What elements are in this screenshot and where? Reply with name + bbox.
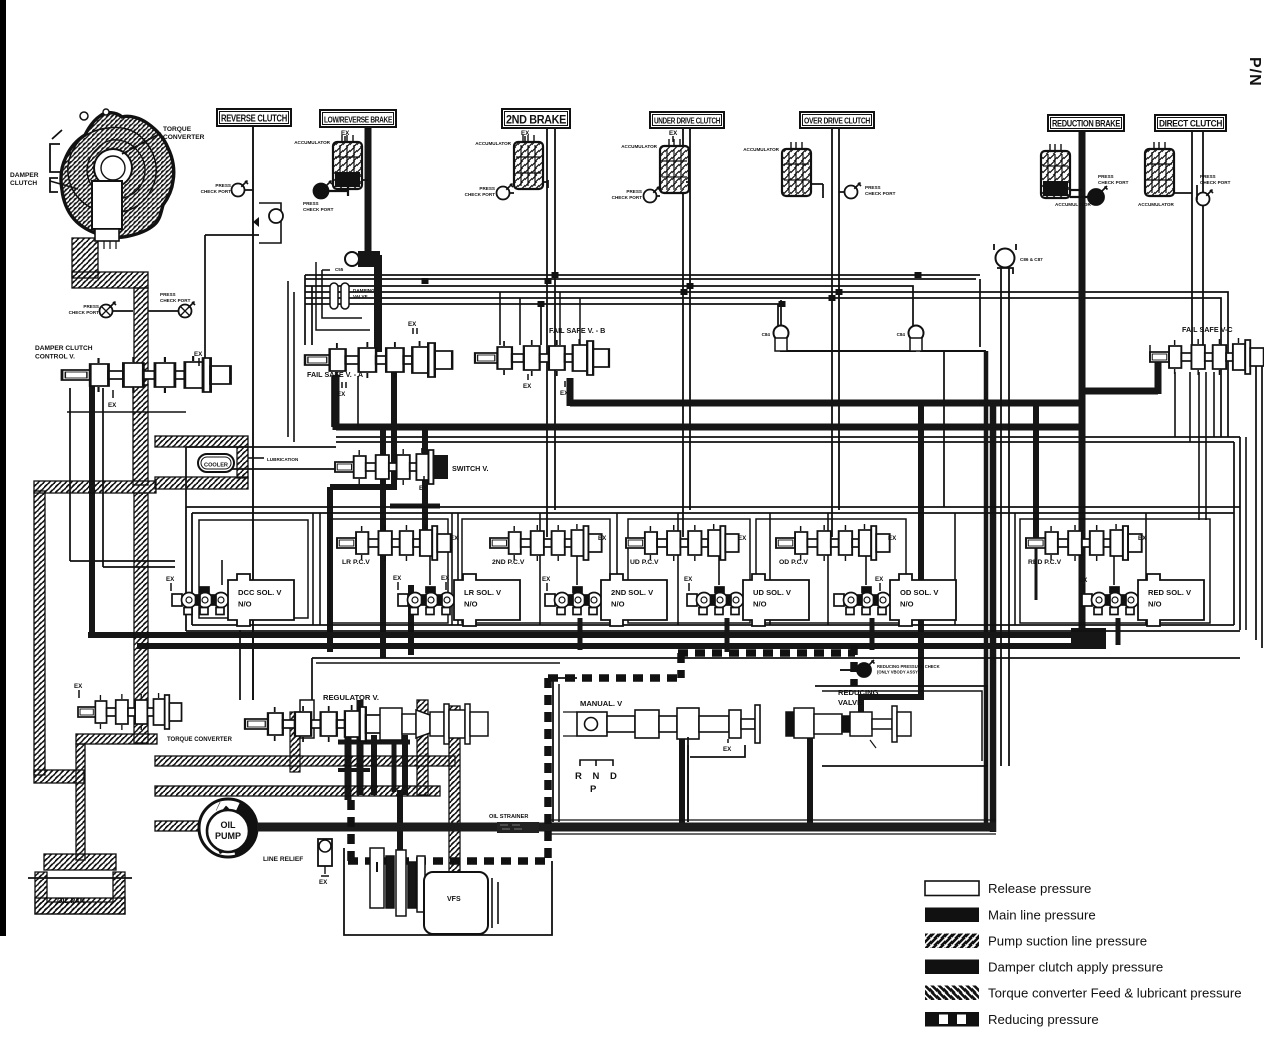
svg-text:EX: EX bbox=[669, 130, 678, 137]
wire: left links bbox=[186, 447, 336, 507]
regulator extension bbox=[380, 704, 488, 744]
svg-text:ACCUMULATOR: ACCUMULATOR bbox=[743, 147, 779, 152]
press check port: direct bbox=[1197, 190, 1214, 206]
accumulator: reduction bbox=[1041, 144, 1070, 198]
wire: thick drop to fail safe A bbox=[374, 255, 382, 352]
wire: reducing dashed x854 bbox=[850, 645, 858, 686]
svg-text:EX: EX bbox=[684, 576, 693, 583]
wire: upper bus line 1 bbox=[305, 275, 980, 279]
svg-text:Pump suction line pressure: Pump suction line pressure bbox=[988, 934, 1147, 949]
svg-text:C84: C84 bbox=[762, 332, 771, 337]
svg-text:ACCUMULATOR: ACCUMULATOR bbox=[294, 140, 330, 145]
wire: accumulator stubs bbox=[362, 180, 548, 188]
svg-text:OIL: OIL bbox=[221, 820, 237, 830]
wire: x985 drop bbox=[984, 351, 989, 826]
wire: over drive clutch drop pair bbox=[832, 128, 839, 537]
solenoid valve: RED solenoid bbox=[1082, 574, 1204, 626]
frame: VFS loop bbox=[344, 848, 552, 935]
svg-text:REVERSE CLUTCH: REVERSE CLUTCH bbox=[221, 113, 287, 125]
pipe: suction horizontal y786 bbox=[155, 786, 440, 796]
oil pump bbox=[199, 799, 257, 857]
label box: DIRECT CLUTCH bbox=[1155, 115, 1226, 131]
check ball: C86 & C87 bbox=[994, 244, 1016, 274]
svg-text:EX: EX bbox=[1079, 577, 1088, 584]
wire: lower thin loop bbox=[312, 658, 1240, 700]
line relief valve bbox=[318, 839, 332, 876]
wire: bus right end drop bbox=[979, 279, 981, 347]
torque converter body bbox=[50, 109, 174, 249]
svg-text:N/O: N/O bbox=[900, 600, 914, 609]
solenoid valve: DCC solenoid bbox=[172, 574, 294, 626]
svg-text:Damper clutch apply pressure: Damper clutch apply pressure bbox=[988, 960, 1163, 975]
legend item: Damper clutch apply pressure bbox=[925, 960, 979, 975]
wire: C84 collector line bbox=[781, 340, 985, 637]
svg-text:OVER DRIVE CLUTCH: OVER DRIVE CLUTCH bbox=[804, 117, 870, 126]
svg-text:EX: EX bbox=[598, 535, 607, 542]
VFS solenoid cluster bbox=[370, 848, 425, 916]
wire: oil pan rim line bbox=[28, 877, 132, 879]
wire: oil strainer main line bbox=[257, 823, 996, 832]
press check port: reverse bbox=[232, 181, 249, 197]
svg-text:EX: EX bbox=[888, 535, 897, 542]
wire: bus left drop to fail safe A bbox=[305, 275, 312, 345]
svg-text:Release pressure: Release pressure bbox=[988, 881, 1091, 896]
wire: VFS feed black bbox=[397, 790, 403, 870]
wire: reverse clutch drop line bbox=[252, 126, 254, 700]
pipe: horizontal duct y734 bbox=[76, 734, 157, 744]
valve spool: switch valve bbox=[335, 448, 447, 485]
svg-text:PUMP: PUMP bbox=[215, 831, 241, 841]
svg-text:EX: EX bbox=[523, 383, 532, 390]
valve spool: LR PCV bbox=[337, 524, 451, 561]
pipe: suction elbow bbox=[34, 770, 84, 783]
legend item: Reducing pressure bbox=[925, 1012, 979, 1027]
svg-text:LR P.C.V: LR P.C.V bbox=[342, 559, 370, 566]
wire: main line thick vertical x383 bbox=[380, 427, 386, 658]
svg-text:ACCUMULATOR: ACCUMULATOR bbox=[475, 141, 511, 146]
svg-text:EX: EX bbox=[542, 576, 551, 583]
accumulator: under drive bbox=[660, 139, 689, 193]
pipe: suction vertical to oil pan bbox=[76, 744, 85, 860]
gear selector R N D P bbox=[580, 760, 613, 766]
wire: main line thick vertical x425 bbox=[422, 427, 428, 545]
svg-text:ACCUMULATOR: ACCUMULATOR bbox=[621, 144, 657, 149]
wire: line to regulator left bbox=[240, 630, 253, 700]
svg-text:TORQUE CONVERTER: TORQUE CONVERTER bbox=[167, 737, 233, 743]
wire: sol chain drops (thick) bbox=[578, 618, 583, 650]
frame: manual valve box bbox=[553, 678, 577, 822]
svg-text:VFS: VFS bbox=[447, 896, 461, 903]
svg-text:OIL STRAINER: OIL STRAINER bbox=[489, 814, 528, 820]
press check port: dcc-1 bbox=[100, 302, 117, 318]
wire: bottom right corner thick bbox=[990, 405, 997, 832]
VFS body bbox=[424, 872, 498, 934]
svg-text:EX: EX bbox=[166, 576, 175, 583]
wire: DCC left thin verticals bbox=[70, 388, 103, 567]
svg-text:N/O: N/O bbox=[753, 600, 767, 609]
valve spool: regulator valve bbox=[245, 705, 382, 742]
label box: REVERSE CLUTCH bbox=[217, 109, 291, 126]
wire: main line thick vertical x411 bbox=[408, 585, 414, 655]
svg-text:EX: EX bbox=[408, 321, 417, 328]
reducing valve spool bbox=[786, 706, 911, 748]
svg-text:ACCUMULATOR: ACCUMULATOR bbox=[1138, 202, 1174, 207]
svg-text:EX: EX bbox=[419, 485, 428, 492]
svg-text:Torque converter Feed & lubric: Torque converter Feed & lubricant pressu… bbox=[988, 986, 1242, 1001]
label box: 2ND BRAKE bbox=[502, 109, 570, 128]
wire: main line to RED PCV (thick) bbox=[1033, 406, 1039, 545]
legend item: Pump suction line pressure bbox=[925, 934, 979, 949]
wire: direct clutch drop pair bbox=[1192, 131, 1203, 345]
wire: sol stubs bbox=[222, 556, 1114, 585]
wire: main line from low/reverse brake (thick) bbox=[365, 127, 372, 258]
wire: DCC sol feed lines bbox=[70, 561, 175, 567]
svg-text:DIRECT CLUTCH: DIRECT CLUTCH bbox=[1159, 119, 1222, 130]
wire: upper bus line 5 bbox=[305, 304, 778, 326]
pipe: oil pan basin bbox=[35, 872, 125, 914]
page scan edge bar bbox=[0, 0, 6, 936]
svg-text:R N D: R N D bbox=[575, 771, 621, 782]
valve spool: fail safe V-B bbox=[475, 339, 609, 376]
svg-text:LR SOL. V: LR SOL. V bbox=[464, 588, 502, 597]
svg-text:OD SOL. V: OD SOL. V bbox=[900, 588, 939, 597]
svg-text:RED SOL. V: RED SOL. V bbox=[1148, 588, 1192, 597]
cooler bbox=[198, 454, 234, 472]
pipe: oil pan top plate bbox=[44, 854, 116, 870]
valve spool: fail safe V-A bbox=[305, 341, 452, 378]
accumulator: direct bbox=[1145, 142, 1174, 196]
svg-text:EX: EX bbox=[875, 576, 884, 583]
svg-text:DAMPERCLUTCH: DAMPERCLUTCH bbox=[10, 172, 39, 187]
svg-text:MANUAL. V: MANUAL. V bbox=[580, 699, 623, 708]
manual valve spool bbox=[563, 705, 760, 743]
pipe: torque converter outlet duct bbox=[72, 238, 98, 278]
press check port: over drive bbox=[845, 183, 862, 199]
wire: reducing dashed drop x703 bbox=[677, 653, 685, 678]
press check port: reducing pressure check bbox=[857, 660, 875, 677]
pipe: regulator hatched columns bbox=[417, 700, 428, 795]
pipe: cooler loop right bbox=[237, 447, 248, 478]
label box: REDUCTION BRAKE bbox=[1048, 115, 1124, 131]
svg-text:REDUCING: REDUCING bbox=[838, 688, 879, 697]
check valve assembly at reverse line bbox=[253, 203, 283, 243]
wire: manual valve drop left (thick) bbox=[679, 735, 685, 826]
svg-text:EX: EX bbox=[560, 390, 569, 397]
svg-text:FAIL SAFE V-C: FAIL SAFE V-C bbox=[1182, 325, 1233, 334]
svg-text:FAIL SAFE V. - B: FAIL SAFE V. - B bbox=[549, 326, 605, 335]
legend item: Main line pressure bbox=[925, 908, 979, 923]
svg-text:OD P.C.V: OD P.C.V bbox=[779, 559, 808, 566]
wire: under drive clutch drop pair bbox=[683, 128, 690, 537]
press check port: reduction bbox=[1088, 186, 1108, 205]
pipe: left suction vertical bbox=[34, 491, 45, 775]
wire: regulator black columns bbox=[345, 735, 352, 800]
accumulator: low/reverse bbox=[333, 135, 362, 189]
pipe: suction band to left edge bbox=[34, 481, 156, 493]
wire: reducing dashed x351 bbox=[347, 800, 355, 861]
svg-text:SWITCH V.: SWITCH V. bbox=[452, 464, 488, 473]
accumulator: over drive bbox=[782, 142, 811, 196]
wire: upper bus line 2 bbox=[305, 286, 913, 326]
svg-text:C84: C84 bbox=[897, 332, 906, 337]
wire: upper bus line 3 bbox=[305, 292, 1228, 375]
wire: main line elbow to x330 bbox=[330, 487, 394, 652]
svg-text:Main line pressure: Main line pressure bbox=[988, 908, 1096, 923]
valve spool: RED PCV bbox=[1026, 524, 1142, 561]
frame: solenoid row outer bbox=[186, 507, 1240, 513]
svg-text:UD SOL. V: UD SOL. V bbox=[753, 588, 792, 597]
svg-text:2ND P.C.V: 2ND P.C.V bbox=[492, 559, 525, 566]
pipe: suction horizontal to pump bbox=[155, 821, 203, 831]
wire: bottom thick pair bbox=[88, 632, 1090, 638]
label: lubrication bbox=[248, 457, 264, 459]
frame: inner cell DCC bbox=[199, 520, 308, 618]
svg-text:EX: EX bbox=[723, 746, 732, 753]
wire: reducing dashed y678 bbox=[548, 674, 681, 682]
junction block: thick pair right end bbox=[1071, 628, 1106, 648]
wire: reducing dashed x548 bbox=[544, 678, 552, 861]
solenoid valve: LR solenoid bbox=[398, 574, 520, 626]
check ball: C84 right bbox=[909, 326, 924, 352]
wire: damping valve loop bbox=[322, 270, 362, 318]
svg-text:DCC SOL. V: DCC SOL. V bbox=[238, 588, 282, 597]
wire: fail safe C pin drops bbox=[1175, 372, 1206, 520]
press check port: 2nd brake bbox=[497, 184, 514, 200]
valve spool: DCC control valve bbox=[62, 356, 230, 393]
wire: thick vertical x921 to reducing valve bbox=[861, 403, 924, 714]
frame: partitions bbox=[312, 513, 314, 625]
wire: right frame verticals bbox=[1234, 437, 1240, 630]
wire: far right frame pair bbox=[1256, 352, 1262, 648]
svg-text:FAIL SAFE V. - A: FAIL SAFE V. - A bbox=[307, 370, 363, 379]
solenoid valve: OD solenoid bbox=[834, 574, 956, 626]
svg-text:EX: EX bbox=[441, 575, 450, 582]
wire: mid thin pair bbox=[336, 437, 1240, 442]
svg-text:Reducing pressure: Reducing pressure bbox=[988, 1012, 1099, 1027]
svg-text:EX: EX bbox=[393, 575, 402, 582]
accumulator: 2nd brake bbox=[514, 135, 543, 189]
junction ticks on bus lines bbox=[545, 278, 552, 284]
svg-text:REGULATOR V.: REGULATOR V. bbox=[323, 693, 379, 702]
wire: 2nd brake drop pair bbox=[547, 128, 555, 537]
press check port: under drive bbox=[644, 187, 661, 203]
frame: reducing valve box bbox=[815, 686, 987, 766]
valve spool: UD PCV bbox=[626, 524, 739, 561]
svg-text:OIL PAN: OIL PAN bbox=[57, 898, 85, 905]
svg-text:P: P bbox=[590, 784, 597, 795]
valve spool: OD PCV bbox=[776, 524, 890, 561]
svg-text:LOW/REVERSE BRAKE: LOW/REVERSE BRAKE bbox=[324, 116, 393, 125]
press check port: low/reverse bbox=[314, 181, 333, 199]
svg-text:N/O: N/O bbox=[464, 600, 478, 609]
svg-text:EX: EX bbox=[450, 535, 459, 542]
junction ball: C55 junction bbox=[345, 252, 359, 266]
svg-text:LINE RELIEF: LINE RELIEF bbox=[263, 856, 303, 863]
svg-text:P/N: P/N bbox=[1246, 57, 1263, 87]
label box: LOW&#47;REVERSE BRAKE bbox=[320, 110, 396, 127]
wire: C86 drop pair bbox=[1001, 268, 1009, 766]
damping valve bbox=[330, 283, 349, 309]
pipe: duct below DCC valve bbox=[133, 385, 148, 485]
wire: reducing dashed y653 bbox=[678, 649, 855, 657]
valve spool: fail safe V-C bbox=[1150, 338, 1264, 375]
svg-text:N/O: N/O bbox=[611, 600, 625, 609]
check ball: C84 left bbox=[774, 326, 789, 352]
svg-text:UNDER DRIVE CLUTCH: UNDER DRIVE CLUTCH bbox=[654, 117, 720, 126]
valve spool: 2ND PCV bbox=[490, 524, 602, 561]
svg-text:EX: EX bbox=[319, 879, 328, 886]
svg-text:EX: EX bbox=[337, 391, 346, 398]
svg-text:EX: EX bbox=[74, 683, 83, 690]
svg-text:EX: EX bbox=[194, 351, 203, 358]
svg-text:ACCUMULATOR: ACCUMULATOR bbox=[1055, 202, 1091, 207]
svg-text:UD P.C.V: UD P.C.V bbox=[630, 559, 659, 566]
legend item: Torque converter Feed &amp; lubricant pressure bbox=[925, 986, 979, 1001]
svg-text:EX: EX bbox=[108, 402, 117, 409]
solenoid valve: 2ND solenoid bbox=[545, 574, 667, 626]
svg-text:2ND BRAKE: 2ND BRAKE bbox=[506, 113, 566, 127]
frame: solenoid row bottom bbox=[186, 625, 1240, 631]
pipe: mid duct vertical bbox=[134, 493, 148, 743]
label box: OVER DRIVE CLUTCH bbox=[800, 112, 874, 128]
valve spool: converter relief valve bbox=[78, 693, 182, 730]
wire: DCC apply black line bbox=[89, 385, 95, 637]
svg-text:COOLER: COOLER bbox=[204, 463, 228, 469]
svg-text:RED P.C.V: RED P.C.V bbox=[1028, 559, 1062, 566]
legend item: Release pressure bbox=[925, 881, 979, 896]
wire: main line thick vertical x394 bbox=[391, 370, 397, 490]
pipe: cooler loop top bbox=[155, 436, 248, 447]
wire: reduction brake main line (thick) bbox=[1079, 131, 1086, 648]
wire: main line horizontal y427 (thick) bbox=[336, 424, 1085, 431]
pipe: cooler loop bottom bbox=[155, 477, 248, 489]
wire: manual valve drop right (thick) bbox=[807, 738, 813, 826]
wire: thick link y391 to fail safe C bbox=[1085, 357, 1158, 394]
svg-text:VALVE: VALVE bbox=[838, 698, 862, 707]
solenoid valve: UD solenoid bbox=[687, 574, 809, 626]
svg-text:C86 & C87: C86 & C87 bbox=[1020, 257, 1043, 262]
svg-text:REDUCTION BRAKE: REDUCTION BRAKE bbox=[1052, 119, 1120, 129]
svg-text:C55: C55 bbox=[335, 267, 344, 272]
svg-text:N/O: N/O bbox=[1148, 600, 1162, 609]
frame: second box bbox=[687, 737, 689, 822]
wire: main line horizontal y403 (thick) bbox=[570, 400, 1085, 407]
pipe: suction horizontal y756 bbox=[155, 756, 455, 766]
wire: upper bus line 4 bbox=[305, 298, 1221, 375]
label box: UNDER DRIVE CLUTCH bbox=[650, 112, 724, 128]
frame: inner cell rects bbox=[330, 519, 448, 623]
svg-text:EX: EX bbox=[1138, 535, 1147, 542]
svg-text:N/O: N/O bbox=[238, 600, 252, 609]
svg-text:LUBRICATION: LUBRICATION bbox=[267, 457, 299, 462]
svg-text:EX: EX bbox=[738, 535, 747, 542]
svg-text:2ND SOL. V: 2ND SOL. V bbox=[611, 588, 654, 597]
wire: reducing dashed y861 bbox=[348, 857, 548, 865]
wire: bus drop 2nd bbox=[540, 304, 542, 345]
press check port: dcc-2 bbox=[179, 302, 196, 318]
